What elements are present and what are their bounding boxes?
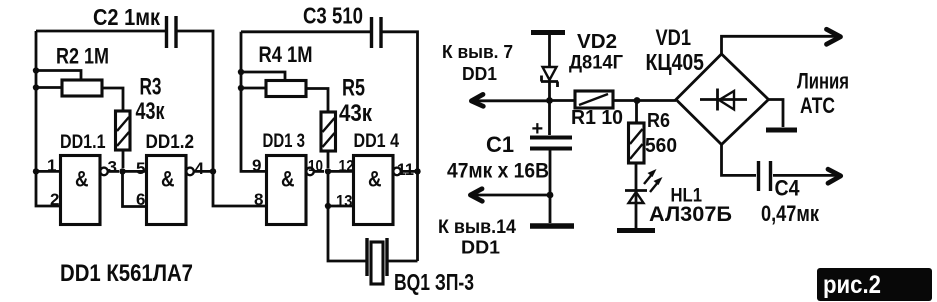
svg-text:560: 560 xyxy=(645,134,677,157)
svg-text:Линия: Линия xyxy=(797,69,849,94)
capacitor C4 xyxy=(722,145,841,192)
resistor R5 xyxy=(321,112,336,168)
terminal bar bottom C1 xyxy=(530,223,574,229)
svg-text:R4 1M: R4 1M xyxy=(259,42,313,67)
svg-text:10: 10 xyxy=(308,158,323,175)
wire pin13 jog xyxy=(328,171,354,206)
resistor R6 xyxy=(629,101,645,164)
LED HL1 xyxy=(625,163,663,229)
svg-text:Д814Г: Д814Г xyxy=(569,52,623,74)
figure badge рис.2 xyxy=(817,268,932,301)
resistor R4 xyxy=(241,72,328,112)
arrow to pin 14 xyxy=(470,189,550,201)
wire pin8 feed xyxy=(213,171,267,206)
svg-text:13: 13 xyxy=(336,192,353,211)
gate DD1.2 xyxy=(147,156,214,225)
gate DD1.4 xyxy=(354,156,418,225)
svg-text:DD1.1: DD1.1 xyxy=(60,132,106,153)
bridge VD1 xyxy=(676,54,769,145)
wire left rail block1 xyxy=(36,31,61,206)
svg-text:&: & xyxy=(368,167,382,192)
node R6 junction xyxy=(634,97,641,104)
svg-text:6: 6 xyxy=(136,190,145,209)
node pin1 junction xyxy=(33,168,39,174)
wire pin1 DD1.1 xyxy=(36,170,61,173)
svg-text:43к: 43к xyxy=(136,98,166,125)
node output block1 xyxy=(210,168,216,174)
node left rail lower xyxy=(33,84,39,90)
resistor R2 xyxy=(36,71,123,112)
svg-text:АЛ307Б: АЛ307Б xyxy=(649,202,732,226)
terminal bar top xyxy=(531,30,565,35)
svg-text:2: 2 xyxy=(50,190,59,209)
wire top rail left of C3 xyxy=(241,30,371,33)
svg-text:АТС: АТС xyxy=(800,93,835,118)
gate DD1.3 xyxy=(267,156,325,225)
wire left rail block2 xyxy=(241,32,267,172)
svg-text:BQ1 ЗП-3: BQ1 ЗП-3 xyxy=(394,269,474,295)
svg-text:C2 1мк: C2 1мк xyxy=(93,4,160,30)
svg-text:8: 8 xyxy=(254,190,263,209)
capacitor C2 xyxy=(167,16,177,48)
zener VD2 xyxy=(541,67,558,100)
svg-text:43к: 43к xyxy=(339,100,373,127)
svg-text:R2 1M: R2 1M xyxy=(56,44,109,69)
svg-text:R1 10: R1 10 xyxy=(571,106,623,129)
resistor R1 xyxy=(550,91,677,108)
svg-text:VD1: VD1 xyxy=(656,25,692,50)
wire top bar to VD2 xyxy=(548,34,551,67)
svg-text:DD1: DD1 xyxy=(462,64,497,84)
svg-text:К выв. 7: К выв. 7 xyxy=(442,42,513,62)
svg-text:&: & xyxy=(75,167,89,192)
node VD2 junction xyxy=(546,97,553,104)
node pin14 junction xyxy=(547,192,554,199)
wire top rail right of C3 and right rail block2 xyxy=(381,32,418,261)
svg-text:&: & xyxy=(161,167,175,192)
svg-text:R6: R6 xyxy=(647,110,670,132)
svg-text:11: 11 xyxy=(397,160,414,179)
node between gates block2 xyxy=(325,168,331,174)
crystal BQ1 xyxy=(328,206,418,284)
node pin13 crystal junction xyxy=(325,203,331,209)
node left rail upper xyxy=(33,67,39,73)
wire top rail right of C2 and right rail block1 xyxy=(176,31,213,171)
svg-text:9: 9 xyxy=(252,156,261,175)
gate DD1.1 xyxy=(61,156,120,225)
svg-text:0,47мк: 0,47мк xyxy=(761,201,820,226)
svg-text:R3: R3 xyxy=(140,74,162,101)
node output block2 xyxy=(414,168,420,174)
svg-text:DD1.2: DD1.2 xyxy=(146,132,195,153)
svg-text:47мк x 16В: 47мк x 16В xyxy=(447,160,549,183)
svg-text:DD1: DD1 xyxy=(461,237,500,258)
ground stub right of bridge xyxy=(766,100,797,131)
svg-text:К выв.14: К выв.14 xyxy=(438,217,516,238)
arrow line top (Линия АТС) xyxy=(722,29,841,54)
svg-text:DD1 К561ЛА7: DD1 К561ЛА7 xyxy=(60,260,193,287)
svg-text:DD1 3: DD1 3 xyxy=(263,131,306,152)
svg-text:C3 510: C3 510 xyxy=(303,3,363,29)
svg-text:1: 1 xyxy=(47,156,56,175)
capacitor C1 xyxy=(530,101,572,224)
wire top rail left of C2 xyxy=(36,30,166,33)
svg-text:3: 3 xyxy=(108,158,117,177)
svg-text:рис.2: рис.2 xyxy=(823,271,881,299)
svg-text:КЦ405: КЦ405 xyxy=(646,49,705,75)
svg-text:4: 4 xyxy=(195,159,205,178)
resistor R3 xyxy=(116,111,131,168)
node left rail upper b2 xyxy=(238,69,244,75)
capacitor C3 xyxy=(372,17,382,48)
terminal bar bottom LED xyxy=(617,228,655,233)
wire pin6 jog xyxy=(123,171,147,206)
svg-text:C1: C1 xyxy=(486,132,514,157)
svg-text:R5: R5 xyxy=(342,75,365,102)
wire pin5 xyxy=(123,170,147,173)
svg-text:12: 12 xyxy=(339,158,355,175)
wire pin12 xyxy=(328,170,354,173)
svg-text:5: 5 xyxy=(136,159,145,178)
svg-text:VD2: VD2 xyxy=(577,31,617,53)
svg-text:&: & xyxy=(281,167,295,192)
arrow to pin 7 xyxy=(471,94,549,106)
node left rail lower b2 xyxy=(238,85,244,91)
node between gates block1 xyxy=(119,168,125,174)
svg-text:DD1 4: DD1 4 xyxy=(354,131,400,152)
svg-text:C4: C4 xyxy=(775,176,801,201)
